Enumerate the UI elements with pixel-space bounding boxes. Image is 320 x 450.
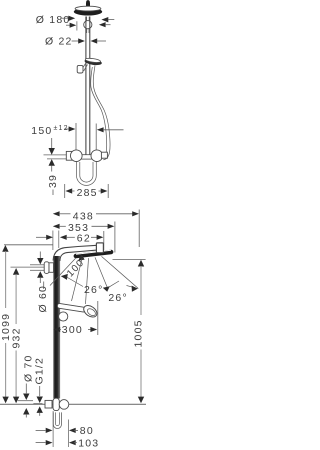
top knob of overhead shower bbox=[86, 0, 90, 7]
arm diameter mini dims bbox=[37, 252, 43, 284]
arm reference line bbox=[11, 266, 45, 268]
dim label 353 bbox=[53, 222, 115, 253]
spray angle label 100deg bbox=[65, 254, 90, 280]
dim label 62 bbox=[36, 231, 104, 250]
reference line to 1005 bbox=[113, 258, 146, 260]
svg-text:80: 80 bbox=[80, 425, 94, 437]
hose loop below valve (side view) bbox=[77, 162, 97, 185]
thermostat valve (side view) bbox=[66, 150, 107, 162]
gooseneck arm to overhead (front view) bbox=[53, 245, 97, 261]
riser extension lines above arm bbox=[53, 231, 59, 251]
svg-text:438: 438 bbox=[73, 210, 94, 222]
hand shower hose (side view) bbox=[91, 66, 110, 160]
hand shower (front view, slightly tilted) bbox=[57, 303, 99, 319]
ball joint bbox=[84, 17, 92, 29]
dim 39 arrows at valve top bbox=[44, 138, 67, 195]
svg-text:26°: 26° bbox=[108, 292, 127, 304]
svg-text:1005: 1005 bbox=[132, 319, 144, 347]
arm stub extension lines bbox=[30, 265, 44, 271]
svg-text:G1/2: G1/2 bbox=[34, 357, 46, 385]
dim text D70 (rotated) with leaders bbox=[18, 354, 35, 417]
dim text D60 (rotated) bbox=[37, 282, 49, 313]
top reference line bbox=[4, 244, 53, 246]
dim line 932 with arrows bbox=[11, 268, 23, 403]
dim label 300 bbox=[53, 301, 97, 336]
dim label 103 bbox=[36, 437, 100, 449]
svg-text:Ø 60: Ø 60 bbox=[37, 285, 49, 313]
dim extension lines 80/103 bbox=[53, 411, 68, 447]
dim text G1/2 (rotated) with leaders bbox=[33, 357, 45, 416]
svg-text:103: 103 bbox=[78, 437, 99, 449]
ball joint dim arrows bbox=[66, 21, 111, 30]
overhead shower disc (side view) bbox=[74, 6, 102, 15]
spray lines bbox=[50, 256, 138, 304]
spray leader 26deg right bbox=[103, 281, 138, 304]
svg-text:39: 39 bbox=[47, 174, 59, 188]
dim label 285 bbox=[65, 184, 109, 199]
hose outlet capsule (front view) bbox=[53, 412, 61, 428]
dim label D22 bbox=[45, 35, 106, 47]
spray leader 26 left bbox=[61, 274, 104, 296]
svg-text:300: 300 bbox=[62, 324, 83, 336]
svg-text:932: 932 bbox=[11, 327, 23, 348]
svg-text:Ø 22: Ø 22 bbox=[45, 35, 73, 47]
wall plate (front view) bbox=[44, 262, 49, 274]
hand shower in holder (side view) bbox=[77, 58, 102, 73]
svg-text:Ø 180: Ø 180 bbox=[36, 14, 71, 26]
dim label 150+-12 bbox=[31, 123, 123, 150]
svg-text:285: 285 bbox=[77, 187, 98, 199]
dim line 1099 with arrows bbox=[0, 245, 12, 403]
svg-text:62: 62 bbox=[77, 233, 91, 245]
riser pipe (front view, shaded tube) bbox=[53, 256, 60, 399]
wall arm union nut (front view) bbox=[49, 263, 54, 273]
thermostat valve (front view) bbox=[45, 398, 69, 410]
svg-text:150: 150 bbox=[31, 125, 52, 137]
ball housing on disc (front view) bbox=[96, 243, 103, 253]
dim label 80 bbox=[36, 425, 94, 437]
dim label 438 bbox=[53, 210, 139, 248]
overhead disc (front view, tilted band) bbox=[73, 249, 113, 258]
svg-text:26°: 26° bbox=[84, 284, 103, 296]
dim label D180 bbox=[36, 14, 115, 26]
riser pipe (side view) bbox=[86, 17, 90, 155]
hand shower holder (front view) bbox=[59, 312, 68, 321]
svg-text:±12: ±12 bbox=[54, 125, 69, 132]
valve centerline bbox=[0, 403, 146, 405]
dim line 1005 with arrows bbox=[132, 260, 144, 404]
